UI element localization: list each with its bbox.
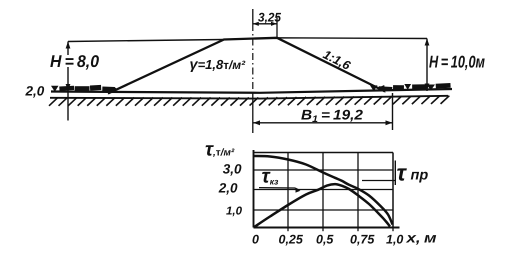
svg-text:H = 8,0: H = 8,0: [50, 52, 99, 71]
svg-text:1,0: 1,0: [226, 205, 243, 217]
svg-text:В1 = 19,2: В1 = 19,2: [301, 107, 363, 126]
svg-text:Н = 10,0м: Н = 10,0м: [429, 52, 485, 71]
svg-text:τ: τ: [397, 159, 408, 185]
svg-text:0,25: 0,25: [279, 233, 304, 247]
svg-text:0: 0: [252, 233, 259, 247]
svg-text:0,5: 0,5: [316, 233, 334, 247]
svg-text:3,25: 3,25: [258, 10, 282, 24]
svg-text:2,0: 2,0: [25, 84, 45, 99]
svg-text:пр: пр: [411, 167, 429, 183]
svg-text:1,0: 1,0: [386, 233, 403, 247]
svg-text:0,75: 0,75: [350, 233, 375, 247]
svg-text:3,0: 3,0: [223, 161, 242, 176]
svg-text:2,0: 2,0: [218, 181, 238, 196]
svg-text:γ=1,8т/м²: γ=1,8т/м²: [190, 57, 247, 73]
svg-text:x, м: x, м: [405, 230, 437, 246]
